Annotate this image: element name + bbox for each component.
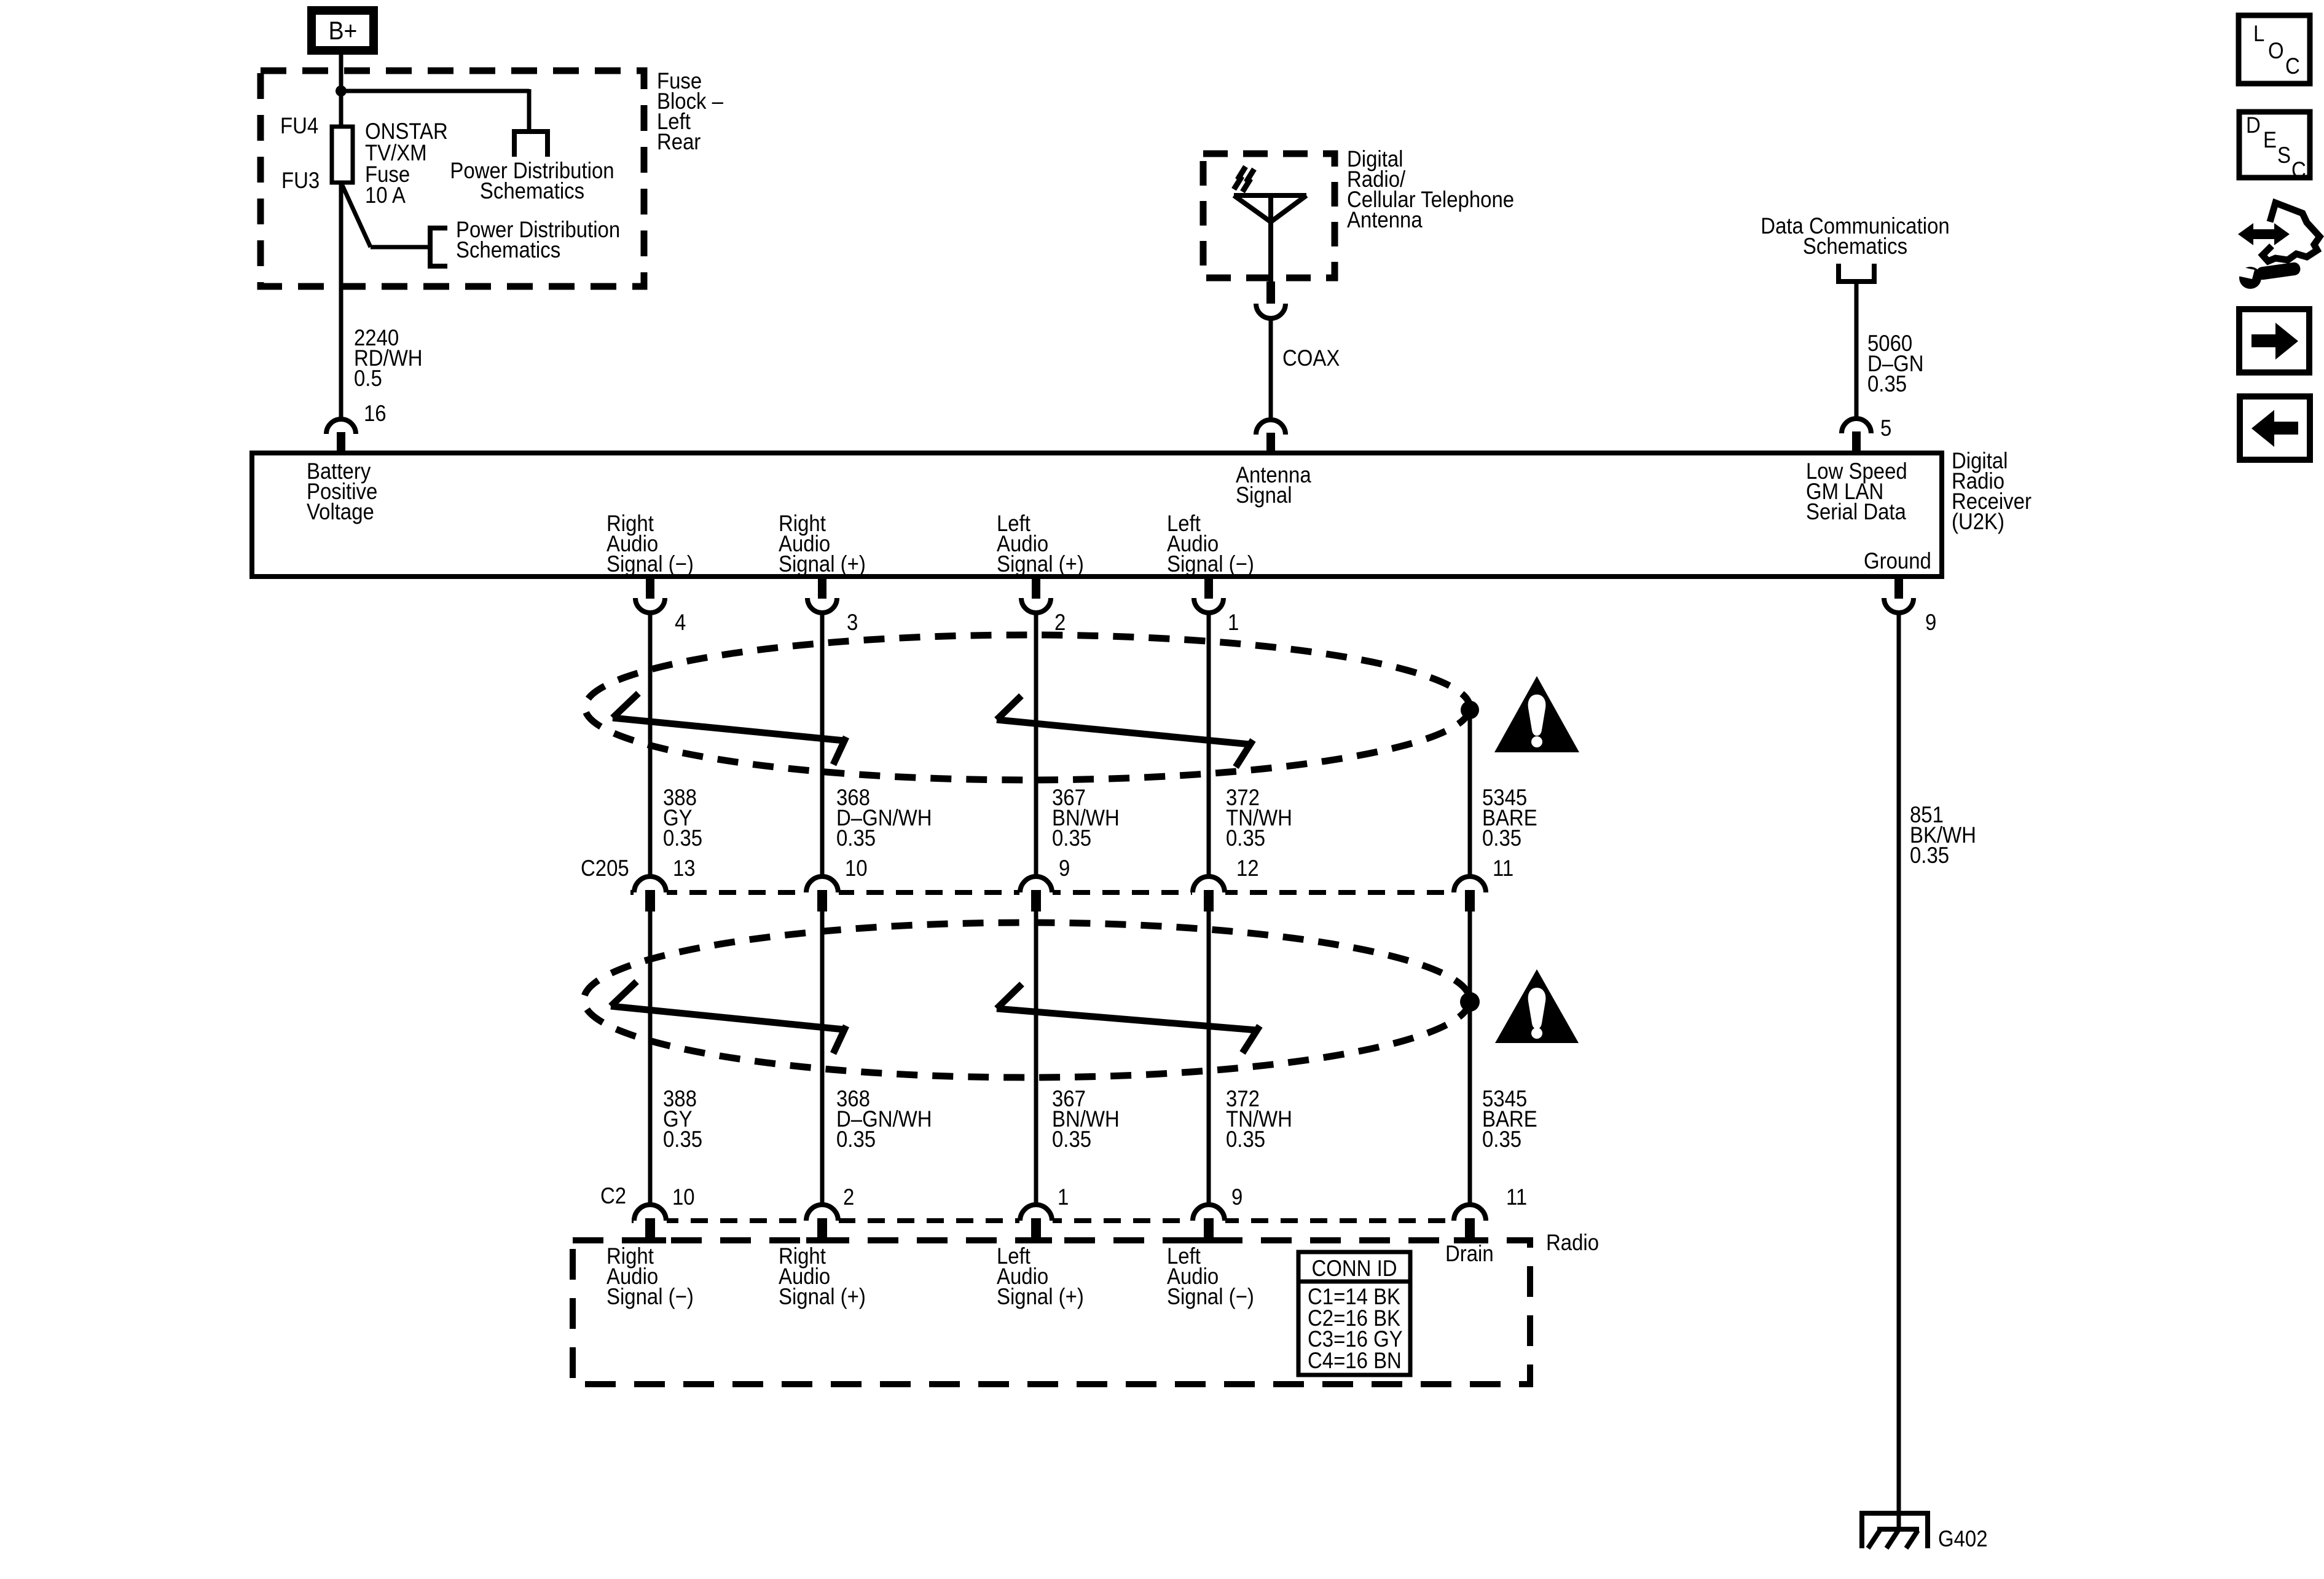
wire audio to C2 pin — [820, 912, 825, 1205]
svg-text:0.35: 0.35 — [836, 825, 876, 851]
label power distribution schematics 1 — [450, 158, 614, 203]
off-page symbol power distribution 2 — [430, 228, 447, 266]
svg-text:C2: C2 — [600, 1183, 626, 1208]
svg-text:Rear: Rear — [657, 129, 701, 154]
svg-text:C: C — [2291, 157, 2306, 183]
svg-text:O: O — [2268, 38, 2284, 63]
svg-text:S: S — [2277, 143, 2291, 168]
svg-text:11: 11 — [1506, 1184, 1527, 1210]
radio label left audio signal plus — [997, 1243, 1084, 1309]
coax wire — [1269, 316, 1273, 420]
bare wire lower — [1468, 912, 1472, 1205]
wire B+ down through fuse to pin 16 — [339, 55, 343, 420]
receiver pin 2 connector — [1021, 577, 1051, 613]
label fuse block left rear — [657, 68, 723, 154]
bare wire upper — [1468, 710, 1472, 878]
svg-text:0.35: 0.35 — [1910, 843, 1949, 868]
svg-text:5: 5 — [1880, 415, 1891, 441]
svg-text:Signal (−): Signal (−) — [1167, 1284, 1254, 1309]
svg-text:Signal (−): Signal (−) — [1167, 551, 1254, 577]
wire fuse to power distribution branch 2 — [341, 183, 430, 247]
label digital radio cellular telephone antenna — [1347, 146, 1514, 232]
wire label 2240 RD/WH 0.5 — [354, 325, 423, 391]
antenna symbol — [1234, 167, 1306, 284]
warning triangle 2 — [1495, 969, 1579, 1043]
wire label 368 D-GN/WH lower — [836, 1086, 932, 1152]
svg-text:3: 3 — [847, 610, 858, 635]
C2 cavity 2 connector — [806, 1205, 839, 1238]
label left audio signal minus pin 1 — [1167, 511, 1254, 577]
ground symbol G402 — [1859, 1513, 1930, 1548]
svg-text:Schematics: Schematics — [456, 237, 560, 262]
svg-text:0.35: 0.35 — [1226, 1127, 1265, 1152]
radio label right audio signal plus — [779, 1243, 866, 1309]
digital radio receiver box — [252, 453, 1942, 577]
svg-text:Signal (−): Signal (−) — [607, 551, 694, 577]
svg-text:Signal (+): Signal (+) — [779, 551, 866, 577]
connector C205 dashed line — [630, 890, 1454, 895]
svg-text:1: 1 — [1058, 1184, 1069, 1210]
wire label 367 BN/WH lower — [1052, 1086, 1120, 1152]
receiver pin 1 connector — [1194, 577, 1223, 613]
C205 cavity 12 connector — [1192, 876, 1225, 912]
svg-text:10 A: 10 A — [365, 183, 406, 208]
svg-text:Ground: Ground — [1864, 548, 1931, 573]
off-page symbol power distribution 1 — [514, 132, 548, 157]
wire junction to power distribution branch — [339, 89, 529, 133]
wire audio 3 to C205 — [820, 612, 825, 878]
svg-text:Serial Data: Serial Data — [1806, 499, 1906, 524]
warning triangle 1 — [1494, 676, 1579, 752]
svg-text:0.35: 0.35 — [1867, 371, 1907, 396]
svg-text:Radio: Radio — [1546, 1230, 1599, 1255]
radio dashed box — [573, 1240, 1530, 1384]
svg-text:FU3: FU3 — [281, 168, 320, 193]
antenna signal pin connector — [1256, 420, 1286, 453]
wire label 388 GY upper — [663, 785, 702, 851]
svg-text:0.35: 0.35 — [663, 1127, 702, 1152]
svg-text:16: 16 — [364, 401, 387, 426]
power symbol B+ — [312, 10, 374, 50]
shield drain junction dot 1 — [1461, 701, 1479, 719]
svg-text:0.5: 0.5 — [354, 366, 382, 391]
svg-text:E: E — [2263, 127, 2277, 152]
svg-text:Schematics: Schematics — [480, 178, 584, 203]
label right audio signal plus pin 3 — [779, 511, 866, 577]
svg-text:C4=16 BN: C4=16 BN — [1308, 1348, 1402, 1373]
wire audio 2 to C205 — [1034, 612, 1038, 878]
svg-text:Drain: Drain — [1445, 1241, 1494, 1266]
svg-text:0.35: 0.35 — [1052, 1127, 1091, 1152]
svg-text:0.35: 0.35 — [836, 1127, 876, 1152]
svg-text:G402: G402 — [1938, 1526, 1988, 1551]
label power distribution schematics 2 — [456, 217, 620, 262]
pin 16 connector — [326, 419, 356, 454]
C2 cavity 9 connector — [1192, 1205, 1225, 1238]
wire audio 1 to C205 — [1207, 612, 1211, 878]
svg-text:D: D — [2246, 112, 2261, 138]
C205 cavity 13 connector — [634, 876, 667, 912]
C2 cavity 10 connector — [634, 1205, 667, 1238]
svg-text:Signal: Signal — [1236, 482, 1292, 508]
svg-text:0.35: 0.35 — [1482, 825, 1521, 851]
wire label 372 TN/WH lower — [1226, 1086, 1292, 1152]
svg-text:0.35: 0.35 — [1052, 825, 1091, 851]
label left audio signal plus pin 2 — [997, 511, 1084, 577]
wire audio 4 to C205 — [648, 612, 653, 878]
svg-text:0.35: 0.35 — [1226, 825, 1265, 851]
svg-text:FU4: FU4 — [280, 113, 318, 138]
svg-text:2: 2 — [1054, 610, 1066, 635]
svg-text:(U2K): (U2K) — [1952, 509, 2004, 534]
C205 cavity 9 connector — [1019, 876, 1053, 912]
shield drain junction dot 2 — [1460, 992, 1480, 1012]
label battery positive voltage — [307, 459, 377, 524]
fuse ONSTAR TV/XM 10A — [332, 127, 353, 183]
svg-text:Antenna: Antenna — [1347, 207, 1423, 232]
twisted shield ellipse 2 — [584, 923, 1470, 1077]
svg-text:C205: C205 — [581, 856, 629, 881]
svg-text:Schematics: Schematics — [1803, 234, 1907, 259]
wire data communication to pin 5 — [1855, 282, 1859, 419]
wire audio to C2 pin — [1207, 912, 1211, 1205]
svg-text:9: 9 — [1059, 856, 1070, 881]
radio box top edge dashes at pins — [634, 1237, 1486, 1243]
wire label 5060 D-GN 0.35 — [1867, 331, 1923, 396]
receiver pin 9 ground connector — [1884, 577, 1914, 613]
svg-text:Signal (−): Signal (−) — [607, 1284, 694, 1309]
svg-text:C: C — [2285, 53, 2300, 79]
svg-text:11: 11 — [1493, 856, 1513, 881]
svg-text:1: 1 — [1228, 610, 1239, 635]
wire audio to C2 pin — [1034, 912, 1038, 1205]
svg-text:0.35: 0.35 — [1482, 1127, 1521, 1152]
svg-text:12: 12 — [1236, 856, 1259, 881]
C2 cavity 11 connector — [1453, 1205, 1486, 1238]
twisted shield ellipse 1 — [585, 635, 1470, 780]
icon arrow left box — [2240, 396, 2310, 460]
wire label 372 TN/WH upper — [1226, 785, 1292, 851]
radio label left audio signal minus — [1167, 1243, 1254, 1309]
ground wire 851 BK/WH — [1897, 612, 1901, 1529]
fuse block - left rear dashed box — [261, 71, 644, 286]
svg-text:0.35: 0.35 — [663, 825, 702, 851]
wire label 368 D-GN/WH upper — [836, 785, 932, 851]
wire label 367 BN/WH upper — [1052, 785, 1120, 851]
svg-text:10: 10 — [845, 856, 868, 881]
icon connector view with wrench — [2238, 203, 2320, 289]
C2 cavity 1 connector — [1019, 1205, 1053, 1238]
svg-text:B+: B+ — [329, 17, 358, 45]
wire label 388 GY lower — [663, 1086, 702, 1152]
receiver pin 4 connector — [635, 577, 665, 613]
icon LOC box — [2239, 15, 2310, 84]
junction dot — [336, 85, 347, 96]
twist symbol pair lower 4-3 — [611, 982, 846, 1053]
svg-text:COAX: COAX — [1282, 345, 1340, 371]
twist symbol pair 2-1 — [997, 696, 1253, 767]
svg-text:Signal (+): Signal (+) — [779, 1284, 866, 1309]
C205 cavity 10 connector — [806, 876, 839, 912]
off-page symbol data communication — [1839, 264, 1874, 282]
digital radio antenna dashed box — [1203, 154, 1335, 278]
svg-text:2: 2 — [843, 1184, 854, 1210]
C205 cavity 11 connector — [1453, 876, 1486, 912]
wire label 5345 BARE upper — [1482, 785, 1537, 851]
svg-text:Voltage: Voltage — [307, 499, 374, 524]
svg-text:CONN ID: CONN ID — [1311, 1256, 1397, 1281]
twist symbol pair lower 2-1 — [997, 984, 1260, 1053]
antenna in-line connector — [1256, 282, 1286, 318]
svg-text:13: 13 — [673, 856, 696, 881]
svg-text:L: L — [2253, 21, 2264, 46]
fuse FU4/FU3 labels — [280, 113, 320, 193]
label antenna signal — [1236, 462, 1311, 508]
label data communication schematics — [1761, 213, 1949, 259]
svg-text:Signal (+): Signal (+) — [997, 551, 1084, 577]
svg-text:10: 10 — [672, 1184, 695, 1210]
wire label 851 BK/WH 0.35 — [1910, 802, 1976, 868]
svg-text:9: 9 — [1231, 1184, 1242, 1210]
label digital radio receiver U2K — [1952, 448, 2032, 534]
svg-text:9: 9 — [1925, 610, 1936, 635]
svg-text:Signal (+): Signal (+) — [997, 1284, 1084, 1309]
svg-text:4: 4 — [675, 610, 686, 635]
conn id table — [1297, 1252, 1410, 1375]
wire audio to C2 pin — [648, 912, 653, 1205]
pin 5 connector — [1842, 419, 1871, 453]
twist symbol pair 4-3 — [613, 693, 846, 765]
label low speed gm lan serial data — [1806, 459, 1907, 524]
label fuse name — [365, 119, 448, 208]
label right audio signal minus pin 4 — [607, 511, 694, 577]
wire label 5345 BARE lower — [1482, 1086, 1537, 1152]
connector C2 dashed line — [632, 1218, 1454, 1223]
icon DESC box — [2239, 112, 2310, 183]
icon arrow right box — [2239, 309, 2309, 372]
radio label right audio signal minus — [607, 1243, 694, 1309]
receiver pin 3 connector — [807, 577, 837, 613]
